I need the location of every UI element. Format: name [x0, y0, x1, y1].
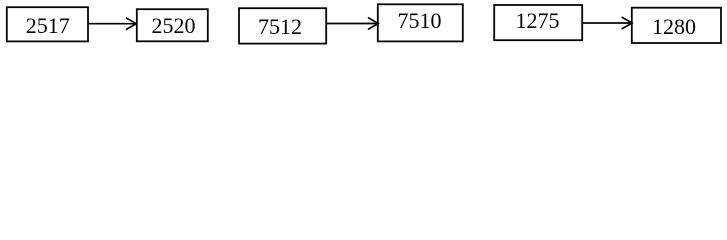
svg-text:1275: 1275: [516, 8, 560, 33]
svg-text:1280: 1280: [652, 14, 696, 39]
box 1280: [632, 8, 721, 43]
svg-text:2517: 2517: [26, 13, 70, 38]
arrow 2517 to 2520 : shaft: [89, 23, 136, 25]
box 1275: [494, 5, 582, 40]
box 2517: [7, 7, 88, 41]
svg-text:2520: 2520: [152, 13, 196, 38]
arrow 2517 to 2520 : head: [127, 18, 137, 29]
arrow 1275 to 1280 : head: [622, 17, 632, 28]
arrow 1275 to 1280 : shaft: [583, 22, 632, 24]
box 2520: [137, 9, 208, 41]
box 7510: [378, 4, 463, 41]
svg-text:7510: 7510: [398, 8, 442, 33]
arrow 7512 to 7510 : head: [369, 18, 379, 29]
arrow 7512 to 7510 : shaft: [327, 23, 378, 25]
svg-text:7512: 7512: [258, 14, 302, 39]
box 7512: [239, 8, 326, 43]
